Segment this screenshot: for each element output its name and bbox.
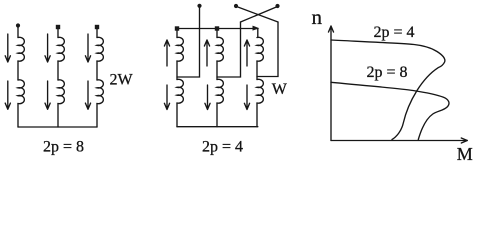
speed-torque curve 2p=4: [331, 40, 445, 140]
svg-text:M: M: [457, 144, 473, 164]
wire A mid: [17, 61, 19, 80]
wire A bottom: [17, 104, 19, 128]
current arrow down W2: [244, 85, 249, 110]
coil C1: [97, 37, 103, 61]
speed-torque curve 2p=8: [331, 82, 449, 139]
coil C2: [97, 80, 103, 104]
coil U2 (middle diagram): [177, 79, 183, 103]
current arrow up W1: [244, 40, 249, 66]
wire V mid with tap: [216, 61, 218, 80]
coil A2 (lower half-winding, phase A): [18, 80, 24, 104]
current arrow down C2: [85, 81, 90, 109]
bus end arrowhead: [253, 26, 260, 31]
midpoint tap V riser: [217, 22, 241, 77]
supply terminal dot 3: [275, 4, 279, 8]
terminal square phase B (left diagram): [56, 25, 60, 29]
wire C mid: [96, 61, 98, 80]
midpoint tap W riser: [257, 22, 278, 77]
svg-text:2W: 2W: [110, 72, 134, 89]
coil V1 (middle diagram): [217, 37, 223, 61]
crossing link W riser to terminal 2: [237, 7, 279, 23]
M axis: [331, 138, 467, 143]
coil A1 (upper half-winding, phase A): [18, 37, 24, 61]
svg-text:2p = 4: 2p = 4: [374, 24, 415, 41]
top shorting bus (middle diagram): [176, 29, 257, 38]
wire W mid with tap: [256, 61, 258, 80]
coil W2 (middle diagram): [257, 79, 263, 103]
svg-text:2p = 8: 2p = 8: [43, 139, 84, 156]
current arrow down A2: [5, 81, 10, 109]
current arrow down B2: [45, 81, 50, 109]
coil B1: [58, 37, 64, 61]
wire lead V top: [216, 31, 218, 38]
wire B bottom: [57, 104, 59, 128]
wire C bottom: [96, 104, 98, 128]
wire lead B top: [57, 29, 59, 38]
svg-text:2p = 4: 2p = 4: [202, 139, 243, 156]
wire V bottom: [216, 103, 218, 127]
coil B2: [58, 80, 64, 104]
supply terminal dot 2: [234, 4, 238, 8]
crossing link V riser to terminal 3: [241, 7, 278, 23]
wire W bottom: [256, 103, 258, 127]
midpoint tap U to supply terminal 1: [177, 7, 200, 77]
wire lead U top: [176, 31, 178, 38]
wire B mid: [57, 61, 59, 80]
supply terminal dot 1: [197, 4, 201, 8]
n axis: [329, 26, 334, 141]
svg-text:n: n: [312, 5, 323, 29]
coil U1 (middle diagram): [177, 37, 183, 61]
coil V2 (middle diagram): [217, 79, 223, 103]
terminal dot phase A (left diagram): [16, 23, 20, 27]
terminal square V (middle diagram): [215, 26, 219, 30]
terminal square phase C (left diagram): [95, 25, 99, 29]
coil W1 (middle diagram): [257, 37, 263, 61]
current arrow up U1: [164, 40, 169, 66]
star-point bus (middle diagram): [177, 126, 258, 128]
svg-text:2p = 8: 2p = 8: [367, 64, 408, 81]
wire lead C top: [96, 29, 98, 38]
current arrow up V1: [204, 40, 209, 66]
star-point bus (left diagram): [18, 126, 97, 128]
wire U mid with tap: [176, 61, 178, 80]
current arrow down V2: [205, 85, 210, 110]
current arrow down C1: [85, 34, 90, 62]
wire U bottom: [176, 103, 178, 127]
current arrow down U2: [164, 85, 169, 110]
current arrow down B1: [45, 34, 50, 62]
wire lead A top: [17, 27, 19, 38]
svg-text:W: W: [272, 81, 288, 98]
current arrow down A1: [5, 34, 10, 62]
terminal square U (middle diagram): [175, 26, 179, 30]
